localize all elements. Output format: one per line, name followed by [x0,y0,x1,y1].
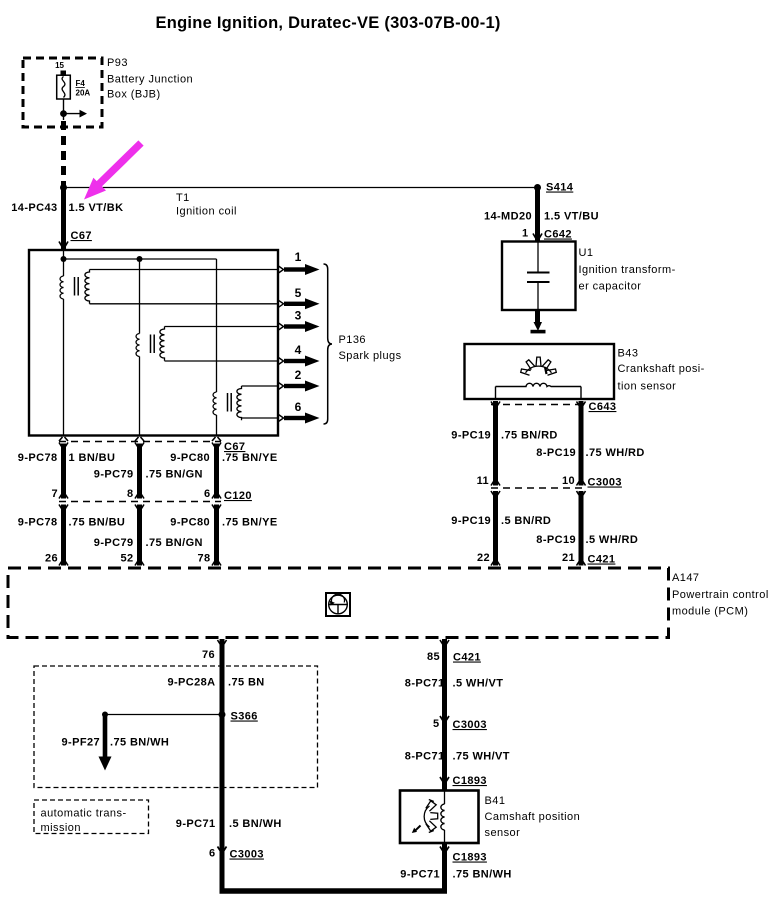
svg-text:Camshaft position: Camshaft position [485,811,581,823]
svg-text:9-PC80: 9-PC80 [170,517,210,529]
B43 reluctor gear icon [521,357,557,375]
transformer 2 secondary [160,327,165,361]
svg-text:P136: P136 [339,334,367,346]
powertrain control module PCM dashed box A147 [8,568,669,638]
svg-text:Ignition coil: Ignition coil [176,206,237,218]
svg-text:Ignition transform-: Ignition transform- [579,264,676,276]
wire inside B41 [444,791,446,805]
connector arrow [218,847,227,853]
dashed box around S366 [34,666,318,788]
transformer 3 core [227,393,229,412]
svg-text:21: 21 [562,552,575,564]
transformer 1 primary [60,276,63,299]
svg-text:C67: C67 [71,230,92,242]
wire arrow down 9-PF27 [103,715,108,758]
connector arrow [212,560,221,566]
svg-text:C642: C642 [544,229,572,241]
wire W3 segment C120-PCM [214,505,219,566]
svg-text:9-PC71: 9-PC71 [400,869,440,881]
svg-text:7: 7 [51,488,58,500]
spark plug output 6 [279,400,320,424]
svg-text:2: 2 [295,368,302,382]
svg-text:F4: F4 [76,79,86,88]
svg-text:9-PC78: 9-PC78 [18,452,58,464]
connector arrow [212,505,221,511]
wire S414 horizontal [64,187,538,189]
svg-text:Crankshaft posi-: Crankshaft posi- [618,363,705,375]
wire W2 inside box [139,259,141,334]
B43 pickup coil [496,383,582,386]
wire secondary1 top to output 1 [90,269,278,271]
svg-text:9-PC78: 9-PC78 [18,517,58,529]
connector arrow [440,716,449,722]
bracket P136 [324,264,333,424]
svg-text:9-PC71: 9-PC71 [176,818,216,830]
transformer 2 core [150,335,152,354]
svg-text:8: 8 [127,488,134,500]
svg-text:26: 26 [45,553,58,565]
svg-text:C3003: C3003 [230,849,264,861]
wire W7 PCM to S366 [220,639,225,852]
connector arrow [533,234,542,240]
wire W4 segment C3003-PCM [493,491,498,566]
svg-text:.75 WH/RD: .75 WH/RD [586,447,645,459]
svg-text:mission: mission [41,822,81,834]
svg-text:C1893: C1893 [453,775,487,787]
svg-text:52: 52 [120,553,133,565]
connector arrow [135,493,144,499]
svg-text:20A: 20A [76,89,91,98]
svg-text:S366: S366 [231,711,258,723]
svg-text:Spark plugs: Spark plugs [339,350,402,362]
svg-text:14-MD20: 14-MD20 [484,211,532,223]
ignition coil T1 box [29,250,278,436]
connector C120 dashed line [59,501,221,503]
transformer 1 secondary [85,270,90,304]
svg-text:sensor: sensor [485,827,521,839]
wire secondary3 top to output 2 [242,385,278,387]
connector arrow [135,560,144,566]
ignition transformer capacitor U1 box [502,242,576,311]
B43 coil lead right [580,387,582,400]
svg-text:.75 BN/WH: .75 BN/WH [453,869,512,881]
wire fuse to junction [63,99,65,120]
wire W1 segment C120-PCM [61,505,66,566]
svg-text:.5 WH/RD: .5 WH/RD [586,534,639,546]
svg-text:9-PC19: 9-PC19 [451,515,491,527]
wire W1 inside box [63,250,65,276]
svg-text:tion sensor: tion sensor [618,381,677,393]
svg-text:.75 BN/BU: .75 BN/BU [69,517,126,529]
wire bottom bus [220,888,448,894]
svg-text:.75 BN/YE: .75 BN/YE [222,517,278,529]
svg-text:C421: C421 [453,652,481,664]
svg-text:C1893: C1893 [453,852,487,864]
wire W2 segment C67-C120 [137,444,142,499]
arrow right from junction [64,113,81,115]
battery junction box P93 dashed box [23,58,102,127]
svg-text:automatic trans-: automatic trans- [41,808,127,820]
spark plug output 2 [279,368,320,392]
connector arrow [577,402,586,408]
svg-text:1: 1 [522,228,529,240]
svg-text:module (PCM): module (PCM) [672,606,748,618]
node dot W2/bus [137,256,143,262]
svg-text:.75 BN/WH: .75 BN/WH [110,737,169,749]
magenta arrow annotation [97,143,141,186]
B43 gear tick [545,367,547,374]
connector feet at coil box bottom wire1 [59,437,68,441]
PCM icon [326,593,350,616]
svg-text:9-PF27: 9-PF27 [62,737,100,749]
svg-text:C643: C643 [589,401,617,413]
transformer 3 secondary [237,386,242,420]
wire W8 continue [442,722,447,790]
connector arrow [577,560,586,566]
svg-text:9-PC79: 9-PC79 [94,537,134,549]
wire W3 inside box [216,259,218,392]
node S366 [219,711,226,718]
wire bus inside box [64,258,217,260]
connector arrow [491,402,500,408]
dashed box automatic transmission [34,800,149,834]
svg-text:9-PC28A: 9-PC28A [167,677,215,689]
svg-text:1.5 VT/BU: 1.5 VT/BU [544,211,599,223]
wire W6 S414 to U1 [535,188,540,242]
wire W4 segment C643-C3003 [493,401,498,486]
connector C67 bottom dashed line [59,441,221,443]
connector arrow [212,493,221,499]
svg-text:14-PC43: 14-PC43 [11,202,57,214]
wire branch to left [105,714,222,716]
pin dot [61,71,67,77]
svg-text:8-PC19: 8-PC19 [536,447,576,459]
svg-text:5: 5 [433,718,440,730]
transformer 2 primary [136,334,139,357]
svg-text:3: 3 [295,309,302,323]
node junction dot at S414 line [60,184,67,191]
svg-text:5: 5 [295,286,302,300]
spark plug output 4 [279,343,320,367]
svg-text:Engine Ignition, Duratec-VE (3: Engine Ignition, Duratec-VE (303-07B-00-… [156,14,501,32]
connector arrow [491,480,500,486]
fuse F4 20A [57,75,71,99]
connector arrow [440,640,449,646]
wire W8 PCM down [442,639,447,722]
svg-text:C421: C421 [588,554,616,566]
crankshaft position sensor B43 box [465,344,615,399]
svg-text:8-PC71: 8-PC71 [405,678,445,690]
svg-text:B41: B41 [485,795,506,807]
svg-text:.75 BN/GN: .75 BN/GN [146,469,203,481]
wire W1 segment C67-C120 [61,444,66,499]
svg-text:6: 6 [204,488,211,500]
spark plug output 1 [279,250,320,275]
svg-text:C3003: C3003 [453,719,487,731]
svg-text:.75 BN: .75 BN [228,677,265,689]
connector arrow [59,505,68,511]
wire thick dashed from fuse [61,121,66,186]
svg-text:9-PC19: 9-PC19 [451,430,491,442]
svg-text:U1: U1 [579,247,594,259]
B41 gear arrow [415,826,421,831]
svg-text:er capacitor: er capacitor [579,281,642,293]
svg-text:A147: A147 [672,572,700,584]
wire secondary1 bottom to output 5 [90,303,278,305]
transformer 3 primary [213,392,216,415]
wire W1 solid to coil box [61,188,66,250]
svg-text:Box (BJB): Box (BJB) [107,89,161,101]
wire W3 segment C67-C120 [214,444,219,499]
svg-text:8-PC71: 8-PC71 [405,751,445,763]
wire W2 segment C120-PCM [137,505,142,566]
svg-text:78: 78 [197,553,210,565]
connector arrow [212,443,221,449]
svg-text:1.5 VT/BK: 1.5 VT/BK [69,202,124,214]
svg-text:1: 1 [295,250,302,264]
wire secondary2 bottom to output 4 [165,360,278,362]
svg-text:B43: B43 [618,348,639,360]
svg-text:76: 76 [202,649,215,661]
connector arrow [135,443,144,449]
svg-text:.75 BN/YE: .75 BN/YE [222,452,278,464]
svg-text:.75 BN/RD: .75 BN/RD [501,430,558,442]
B43 coil lead left [495,387,497,400]
spark plug output 3 [279,309,320,333]
svg-text:1 BN/BU: 1 BN/BU [69,452,116,464]
wire inside U1 [537,242,539,273]
B41 pickup coil [441,804,445,830]
svg-text:9-PC79: 9-PC79 [94,469,134,481]
connector arrow [59,493,68,499]
capacitor plates [527,272,550,274]
svg-text:C3003: C3003 [588,477,622,489]
connector feet at coil box bottom wire2 [135,437,144,441]
svg-text:.5 BN/WH: .5 BN/WH [229,818,282,830]
svg-text:15: 15 [55,61,64,70]
wire secondary3 bottom to output 6 [242,417,278,419]
wire W5 segment C3003-PCM [579,491,584,566]
connector feet at coil box bottom wire3 [212,437,221,441]
svg-text:S414: S414 [546,182,574,194]
connector C67 chevron [59,242,68,248]
svg-text:9-PC80: 9-PC80 [170,452,210,464]
wire U1 to ground [535,310,540,324]
wire W7 to bottom bus [220,852,225,891]
wire W5 segment C643-C3003 [579,401,584,486]
svg-text:Battery Junction: Battery Junction [107,74,193,86]
svg-text:6: 6 [209,848,216,860]
svg-text:Powertrain control: Powertrain control [672,589,769,601]
connector arrow [59,443,68,449]
connector arrow [491,491,500,497]
svg-text:22: 22 [477,552,490,564]
connector arrow [491,560,500,566]
svg-text:.5 WH/VT: .5 WH/VT [453,678,504,690]
node S414 dot [534,184,541,191]
junction dot [60,110,67,117]
svg-text:.5 BN/RD: .5 BN/RD [501,515,551,527]
camshaft position sensor B41 box [400,791,479,844]
connector arrow [218,640,227,646]
connector arrow [59,560,68,566]
svg-text:C120: C120 [224,490,252,502]
node dot W1/bus [61,256,67,262]
spark plug output 5 [279,286,320,309]
svg-text:4: 4 [295,343,302,357]
svg-text:.75 WH/VT: .75 WH/VT [453,751,510,763]
ground symbol [534,322,543,331]
connector arrow [577,480,586,486]
B41 reluctor gear icon [424,800,438,833]
svg-text:.75 BN/GN: .75 BN/GN [146,537,203,549]
connector arrow [135,505,144,511]
svg-text:8-PC19: 8-PC19 [536,534,576,546]
node dot left [102,712,108,718]
connector arrow [440,847,449,853]
wire W8 to bottom bus [442,843,447,891]
svg-text:85: 85 [427,651,440,663]
connector arrow [577,491,586,497]
connector C3003 dashed line [491,487,586,489]
svg-text:T1: T1 [176,192,190,204]
svg-text:10: 10 [562,475,575,487]
connector arrow [440,777,449,783]
connector C643 dashed line [491,404,586,406]
svg-text:P93: P93 [107,57,128,69]
transformer 1 core [74,277,76,296]
svg-text:6: 6 [295,400,302,414]
svg-text:11: 11 [477,475,489,487]
wire secondary2 top to output 3 [165,326,278,328]
